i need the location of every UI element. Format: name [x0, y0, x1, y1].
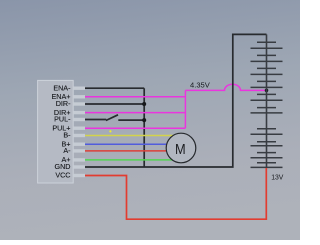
battery cell 2: [251, 55, 283, 61]
wire PUL- left lead: [85, 119, 106, 121]
wire ENA- (black): [85, 87, 144, 89]
battery cell 7: [251, 129, 283, 134]
svg-text:13V: 13V: [271, 175, 284, 182]
wire B+ (blue): [85, 143, 172, 145]
wire VCC (red) battery positive return: [85, 168, 266, 219]
svg-text:4.35V: 4.35V: [190, 83, 210, 90]
wire DIR+ (magenta): [85, 112, 185, 114]
node junction PUL-: [142, 118, 146, 122]
wire bus vertical ENA-/DIR-/PUL-/GND tie: [143, 88, 145, 167]
battery cell 5: [251, 94, 283, 100]
wire DIR- (black): [85, 103, 144, 105]
motor M1: [166, 133, 196, 163]
battery cell 1: [251, 42, 283, 48]
wire A+ (green): [85, 159, 174, 161]
connector pin labels: [52, 83, 72, 179]
wire ENA+ (magenta): [85, 96, 185, 98]
wire GND (black) to battery negative: [85, 34, 267, 167]
svg-text:B-: B-: [63, 131, 71, 140]
battery cell 10: [251, 163, 283, 168]
svg-text:VCC: VCC: [55, 171, 70, 180]
wire PUL+ (magenta): [85, 127, 185, 129]
svg-text:PUL-: PUL-: [54, 115, 71, 124]
svg-text:M: M: [175, 140, 186, 157]
svg-text:A-: A-: [63, 146, 71, 155]
battery BT1 stem: [266, 34, 268, 167]
battery cell 3: [251, 68, 283, 74]
wire B- (yellow): [85, 135, 174, 137]
node junction DIR-: [142, 102, 146, 106]
switch S1 blade (open): [106, 115, 118, 121]
wire 4.35V tap with hop over black wire: [185, 84, 266, 90]
battery cell 4: [251, 81, 283, 87]
wire PUL- right lead: [118, 119, 144, 121]
battery cell 8: [251, 142, 283, 146]
LED indicator dot (yellow): [109, 130, 111, 132]
wire A- (red): [85, 150, 172, 152]
battery cell 6: [251, 108, 283, 113]
wire magenta vertical bus: [184, 90, 186, 128]
battery cell 9: [251, 153, 283, 158]
node junction battery tap: [265, 89, 269, 93]
connector J1 pin stubs: [73, 87, 85, 178]
connector J1 body: [38, 80, 74, 183]
